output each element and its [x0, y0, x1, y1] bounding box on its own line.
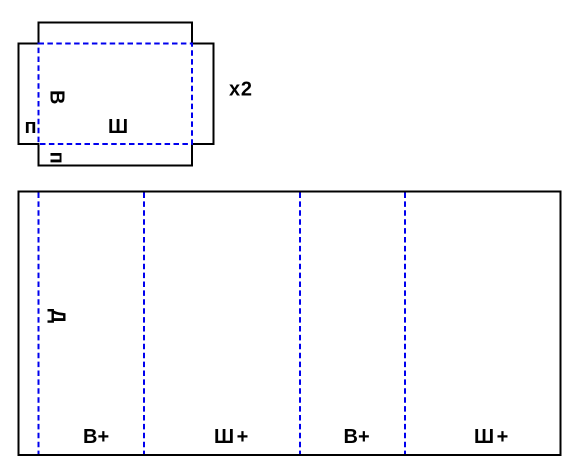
sleeve fold line 2 [143, 193, 145, 455]
box lid template outline (cross shape with four flaps) [19, 23, 214, 166]
sleeve fold line 1 [38, 193, 40, 455]
svg-text:Ш: Ш [108, 116, 128, 138]
svg-text:Ш+: Ш+ [474, 426, 508, 448]
sleeve template outline (large rectangle) [19, 192, 561, 456]
lid fold lines (dashed rectangle) [39, 44, 193, 145]
svg-text:x2: x2 [229, 79, 252, 101]
sleeve fold line 3 [299, 193, 301, 455]
sleeve fold line 4 [404, 193, 406, 455]
svg-text:п: п [25, 116, 37, 138]
svg-text:п: п [46, 152, 68, 164]
svg-text:В+: В+ [344, 426, 370, 448]
svg-text:Д: Д [47, 309, 69, 323]
svg-text:В: В [46, 90, 68, 104]
svg-text:Ш+: Ш+ [214, 426, 248, 448]
svg-text:В+: В+ [83, 426, 109, 448]
